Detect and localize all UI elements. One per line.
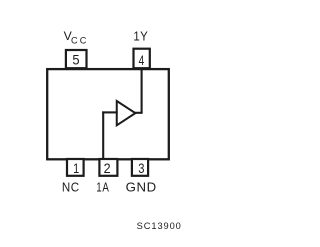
- svg-text:1A: 1A: [96, 181, 109, 195]
- svg-text:CC: CC: [71, 35, 89, 45]
- svg-text:NC: NC: [62, 180, 80, 195]
- pin 5 box: [66, 50, 87, 68]
- wire pin2 vertical (1A input): [102, 111, 104, 158]
- IC body U1: [47, 69, 169, 159]
- svg-text:4: 4: [139, 52, 145, 68]
- svg-text:3: 3: [138, 161, 144, 176]
- pin 1 box: [67, 159, 84, 176]
- svg-text:SC13900: SC13900: [137, 221, 182, 231]
- pin 4 box: [134, 49, 150, 68]
- pin 3 box: [132, 159, 148, 176]
- pin 2 box: [99, 159, 117, 176]
- svg-text:1: 1: [73, 161, 79, 177]
- wire pin4 vertical (1Y output): [141, 68, 143, 113]
- wire buffer output horizontal: [135, 112, 143, 114]
- svg-text:5: 5: [72, 52, 79, 68]
- svg-text:GND: GND: [126, 180, 157, 195]
- svg-text:2: 2: [104, 160, 111, 176]
- buffer gate (triangle): [117, 101, 136, 125]
- svg-text:1Y: 1Y: [133, 29, 148, 44]
- wire pin2 horizontal to buffer input: [102, 111, 118, 113]
